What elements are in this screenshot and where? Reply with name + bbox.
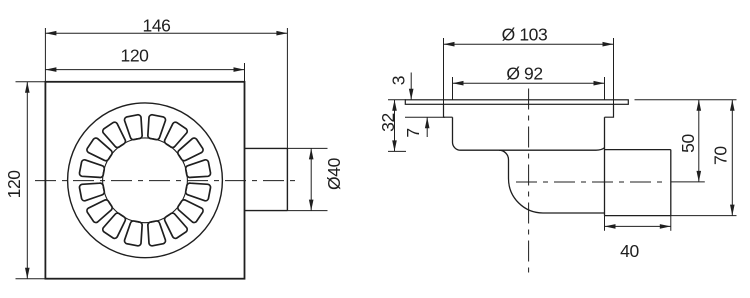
trap cup bottom and socket top line <box>461 148 671 150</box>
extension line Ø92 left <box>452 77 454 100</box>
extension line 40 left <box>604 216 606 231</box>
extension line left edge up <box>44 28 46 82</box>
svg-text:Ø 103: Ø 103 <box>502 25 548 45</box>
dimension 7 leader <box>426 117 428 137</box>
extension line 7 <box>405 116 445 118</box>
svg-text:120: 120 <box>4 170 24 199</box>
svg-text:7: 7 <box>403 128 423 137</box>
extension line flange top right (50/70) <box>635 99 737 101</box>
outlet socket bottom <box>605 215 671 217</box>
extension line 32 bottom <box>388 150 406 152</box>
dimension 32 line <box>394 100 396 152</box>
extension line 32 top <box>388 99 406 101</box>
svg-text:50: 50 <box>678 134 698 153</box>
svg-text:146: 146 <box>143 15 171 35</box>
dimension 40 line <box>605 225 671 227</box>
dimension 3 leader <box>410 73 412 100</box>
extension line 120 left top <box>16 81 49 83</box>
vertical centerline (side view) <box>528 89 530 275</box>
clamping rim right wall <box>605 104 614 117</box>
dimension Ø92 line <box>453 82 605 84</box>
extension line pipe top (Ø40) <box>287 147 327 149</box>
dimension Ø40 line <box>310 148 312 210</box>
extension line 120 left bottom <box>16 278 49 280</box>
dimension 50 line <box>698 100 700 182</box>
horizontal centerline (side view) <box>516 181 663 183</box>
svg-text:70: 70 <box>711 146 731 165</box>
svg-text:Ø40: Ø40 <box>324 157 344 190</box>
dimension 70 line <box>731 100 733 216</box>
dimension 120 top line <box>45 69 244 71</box>
extension line socket bottom right (70) <box>671 215 737 217</box>
grate slots (16 radial openings) <box>79 115 210 246</box>
svg-text:32: 32 <box>378 113 398 132</box>
svg-text:120: 120 <box>121 46 150 66</box>
svg-text:3: 3 <box>388 76 408 85</box>
flange plate (side view) <box>405 100 628 105</box>
extension line Ø92 right <box>604 77 606 100</box>
svg-text:40: 40 <box>620 241 639 261</box>
trap S-curve channel bottom <box>499 150 605 213</box>
dimension 120 left vertical line <box>26 82 28 279</box>
svg-text:Ø 92: Ø 92 <box>506 64 542 84</box>
extension line square right edge up <box>244 63 246 82</box>
clamping rim left wall <box>444 104 453 117</box>
extension line pipe bottom (Ø40) <box>287 210 327 212</box>
outlet pipe stub (top view) <box>245 148 288 210</box>
grate inner circle <box>103 138 188 223</box>
horizontal centerline (top view) <box>35 180 299 182</box>
trap cup left wall <box>452 117 460 150</box>
extension line centerline right (50) <box>671 181 705 183</box>
grate outer circle <box>68 103 223 258</box>
square drain body (top view) <box>45 82 244 279</box>
extension line pipe right edge up (146) <box>286 28 288 148</box>
extension line Ø103 left <box>443 38 445 104</box>
extension line Ø103 right <box>613 38 615 104</box>
dimension 146 line <box>45 32 287 34</box>
extension line 40 right <box>670 216 672 231</box>
trap cup right wall / socket left edge <box>604 117 606 215</box>
dimension Ø103 line <box>444 43 614 45</box>
outlet socket right edge <box>670 150 672 216</box>
